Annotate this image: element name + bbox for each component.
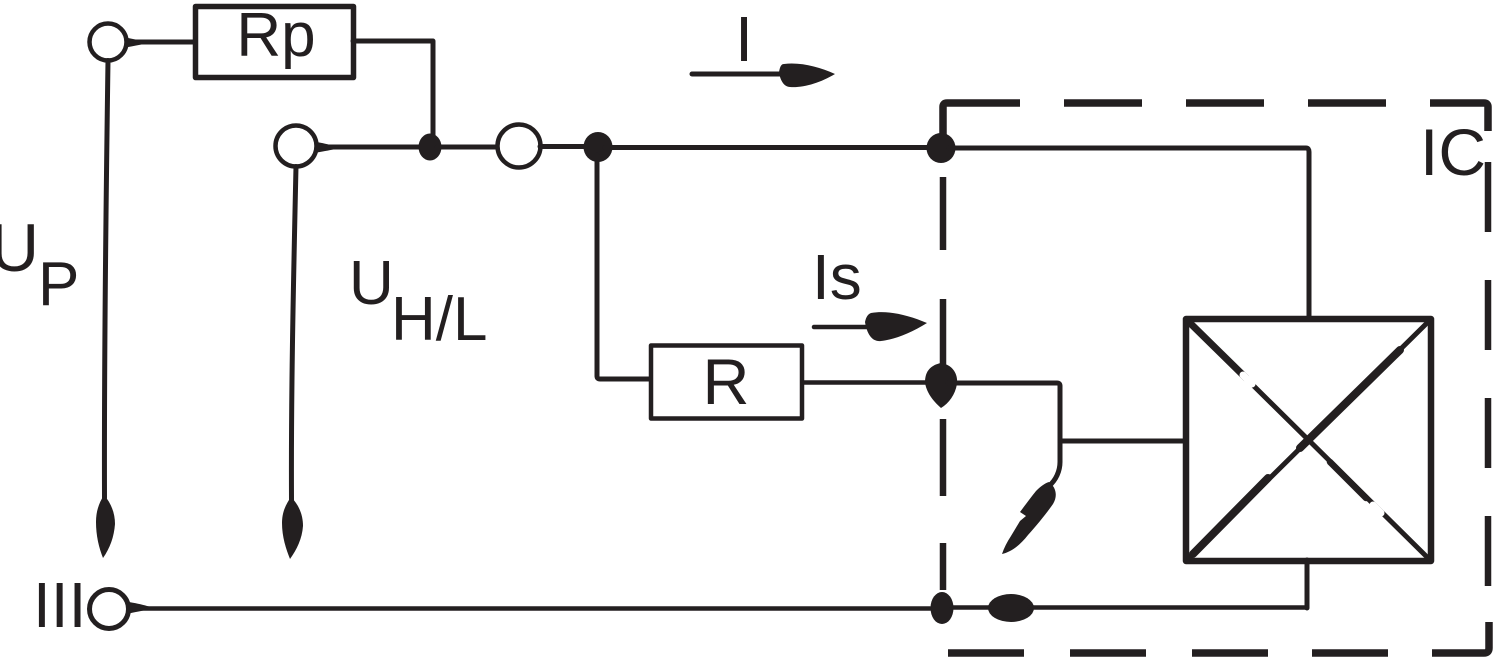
wire T4 to junction J5 (bottom rail)	[129, 606, 930, 611]
label U H/L	[349, 249, 487, 354]
junction J1	[419, 134, 442, 161]
svg-text:I: I	[735, 3, 753, 75]
svg-text:Rp: Rp	[236, 1, 315, 70]
wire J2 down to resistor R	[597, 155, 650, 379]
IC boundary (dashed) right edge	[1485, 162, 1492, 586]
wire Rp to node J1	[353, 41, 433, 138]
label Up	[0, 210, 79, 319]
wire J4 to switch stub	[948, 383, 1060, 486]
IC boundary (dashed) bottom edge	[948, 622, 1489, 653]
resistor Rp	[196, 1, 354, 78]
junction J3 (on IC boundary)	[927, 133, 956, 163]
svg-text:U: U	[349, 249, 394, 318]
wire T2 to node J1	[317, 145, 424, 150]
junction J2	[584, 132, 613, 162]
arrow Is (sense current)	[814, 312, 927, 341]
junction J5 (on IC boundary)	[931, 592, 954, 624]
terminal T1 (top-left open circle)	[90, 24, 127, 61]
wire J2 to J3 (top rail)	[605, 145, 934, 150]
terminal T3 (open circle)	[498, 125, 541, 168]
svg-text:III: III	[33, 569, 86, 641]
wire J6 to IC block (bottom rail)	[1030, 605, 1307, 610]
terminal T4 (bottom-left open circle)	[90, 590, 129, 629]
resistor R	[651, 345, 802, 419]
svg-text:P: P	[38, 250, 79, 319]
terminal T2 (open circle, U H/L tap)	[276, 126, 317, 167]
connector wedge at T4	[129, 602, 149, 614]
wire IC block bottom to bottom rail	[1305, 560, 1310, 608]
junction J4 (on IC boundary)	[925, 363, 957, 408]
wire J1 to T3	[437, 145, 498, 150]
connector wedge at T2	[317, 142, 336, 153]
arrow I (current direction)	[692, 64, 835, 88]
arrow head down (Up lead)	[96, 495, 115, 558]
wire T3 to junction J2	[540, 144, 590, 149]
svg-text:H/L: H/L	[391, 285, 487, 354]
wire J5 to J6	[952, 605, 992, 610]
wire T1 down (Up lead)	[104, 61, 108, 499]
wire stub to IC block left	[1060, 439, 1186, 444]
IC block (box with X)	[1186, 319, 1431, 561]
connector wedge at T1	[126, 38, 144, 48]
svg-text:R: R	[703, 345, 750, 418]
wire R to junction J4	[804, 380, 936, 385]
wire T2 down (U H/L lead)	[291, 167, 296, 501]
svg-text:U: U	[0, 210, 39, 286]
arrow head down (U H/L lead)	[282, 497, 303, 559]
arrow (wiper) pointing to stub	[1002, 482, 1056, 554]
junction J6	[988, 594, 1034, 622]
wire T1 to Rp	[127, 40, 197, 45]
svg-text:Is: Is	[812, 241, 862, 313]
IC boundary (dashed) left edge	[940, 177, 947, 590]
IC boundary (dashed) top edge	[943, 103, 1488, 137]
svg-text:IC: IC	[1420, 115, 1486, 189]
wire J3 to IC block top	[949, 148, 1309, 318]
